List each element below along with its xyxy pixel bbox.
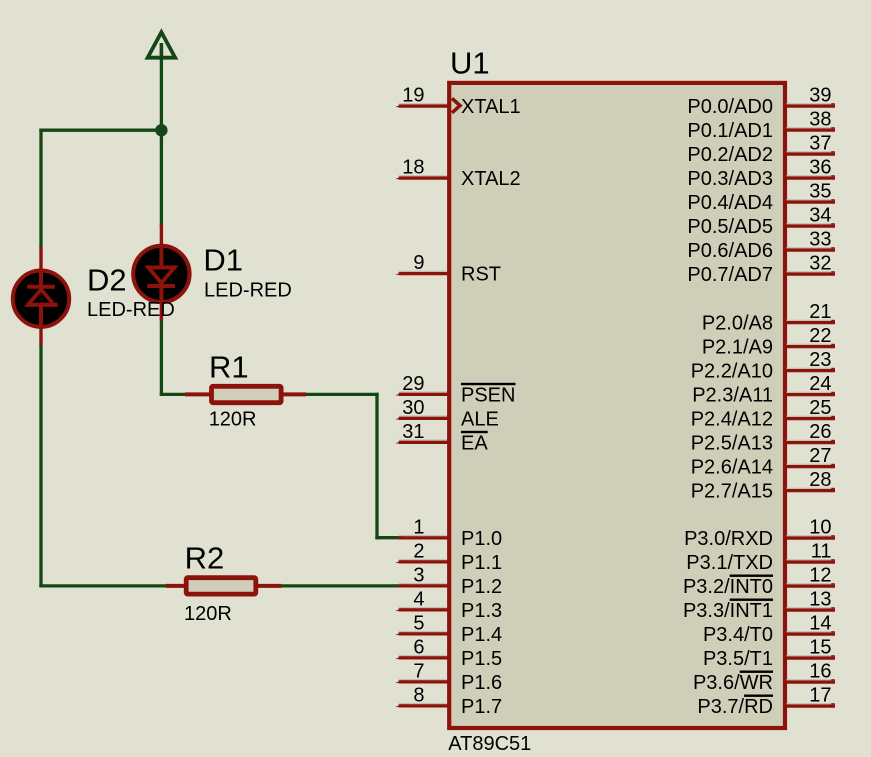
- pin 30 ALE (left): [395, 397, 499, 431]
- svg-text:R2: R2: [185, 540, 225, 575]
- resistor R1: [185, 386, 306, 402]
- svg-text:AT89C51: AT89C51: [448, 733, 531, 755]
- pin 27 P2.6/A14 (right): [691, 445, 835, 479]
- svg-text:P1.1: P1.1: [461, 552, 502, 574]
- pin 31 EA (left): [395, 421, 488, 455]
- svg-text:P3.6/WR: P3.6/WR: [693, 672, 773, 694]
- svg-text:P2.6/A14: P2.6/A14: [691, 457, 773, 479]
- svg-text:P1.2: P1.2: [461, 576, 502, 598]
- pin 1 P1.0 (left): [395, 516, 502, 550]
- svg-text:P1.6: P1.6: [461, 672, 502, 694]
- svg-text:P1.3: P1.3: [461, 600, 502, 622]
- svg-text:23: 23: [809, 349, 831, 371]
- svg-text:34: 34: [809, 205, 831, 227]
- pin 6 P1.5 (left): [395, 636, 502, 670]
- pin 9 RST (left): [395, 252, 501, 286]
- svg-text:24: 24: [809, 373, 831, 395]
- pin 12 P3.2/INT0 (right): [683, 565, 835, 599]
- pin 3 P1.2 (left): [395, 564, 502, 598]
- pin 25 P2.4/A12 (right): [691, 397, 835, 431]
- svg-text:P2.4/A12: P2.4/A12: [691, 409, 773, 431]
- wire left branch down to D2 anode: [39, 130, 42, 247]
- node junction power/D1/D2: [155, 124, 167, 136]
- svg-text:P2.1/A9: P2.1/A9: [702, 337, 773, 359]
- svg-text:16: 16: [809, 661, 831, 683]
- svg-text:2: 2: [413, 540, 424, 562]
- svg-text:18: 18: [402, 157, 424, 179]
- pin 17 P3.7/RD (right): [697, 685, 835, 719]
- svg-text:P3.2/INT0: P3.2/INT0: [683, 576, 773, 598]
- wire R1 right lead rightward: [304, 393, 377, 396]
- pin 13 P3.3/INT1 (right): [683, 589, 835, 623]
- wire to R2 left lead: [41, 584, 171, 587]
- svg-text:12: 12: [809, 565, 831, 587]
- svg-text:XTAL1: XTAL1: [461, 96, 521, 118]
- svg-text:10: 10: [809, 517, 831, 539]
- pin 2 P1.1 (left): [395, 540, 502, 574]
- svg-text:P3.1/TXD: P3.1/TXD: [686, 552, 773, 574]
- svg-text:15: 15: [809, 637, 831, 659]
- wire D2 cathode down to R2 row: [39, 344, 42, 586]
- svg-text:XTAL2: XTAL2: [461, 168, 521, 190]
- pin 8 P1.7 (left): [395, 684, 502, 718]
- pin 4 P1.3 (left): [395, 588, 502, 622]
- svg-text:22: 22: [809, 325, 831, 347]
- pin 32 P0.7/AD7 (right): [687, 253, 835, 287]
- svg-text:P0.4/AD4: P0.4/AD4: [687, 192, 773, 214]
- svg-text:P0.3/AD3: P0.3/AD3: [687, 168, 773, 190]
- wire R2 right lead to pin3 stub: [281, 584, 401, 587]
- svg-text:5: 5: [413, 612, 424, 634]
- pin 21 P2.0/A8 (right): [702, 301, 835, 335]
- svg-text:R1: R1: [209, 350, 249, 385]
- pin 16 P3.6/WR (right): [693, 661, 835, 695]
- svg-text:37: 37: [809, 133, 831, 155]
- wire down to pin1 row: [375, 394, 378, 537]
- svg-text:38: 38: [809, 109, 831, 131]
- power symbol VCC arrow: [148, 32, 176, 60]
- svg-text:6: 6: [413, 636, 424, 658]
- pin 35 P0.4/AD4 (right): [687, 181, 835, 215]
- svg-text:P0.5/AD5: P0.5/AD5: [687, 216, 773, 238]
- pin 19 XTAL1 (left): [395, 85, 520, 119]
- svg-text:P1.0: P1.0: [461, 528, 502, 550]
- svg-text:P1.7: P1.7: [461, 696, 502, 718]
- wire power arrow to D1 anode (through junction): [160, 59, 163, 226]
- wire to pin1 stub: [377, 536, 401, 539]
- pin 34 P0.5/AD5 (right): [687, 205, 835, 239]
- pin 11 P3.1/TXD (right): [686, 541, 835, 575]
- svg-text:120R: 120R: [209, 409, 257, 431]
- LED D1: [133, 225, 189, 321]
- svg-text:13: 13: [809, 589, 831, 611]
- svg-text:120R: 120R: [184, 603, 232, 625]
- svg-text:P2.5/A13: P2.5/A13: [691, 433, 773, 455]
- svg-text:P2.0/A8: P2.0/A8: [702, 313, 773, 335]
- svg-text:27: 27: [809, 445, 831, 467]
- pin 38 P0.1/AD1 (right): [687, 109, 835, 143]
- pin 37 P0.2/AD2 (right): [687, 133, 835, 167]
- svg-text:P0.6/AD6: P0.6/AD6: [687, 240, 773, 262]
- svg-text:P2.3/A11: P2.3/A11: [692, 385, 773, 407]
- svg-text:39: 39: [809, 85, 831, 107]
- svg-text:35: 35: [809, 181, 831, 203]
- svg-text:RST: RST: [461, 264, 501, 286]
- svg-text:21: 21: [809, 301, 831, 323]
- svg-text:D2: D2: [87, 262, 127, 297]
- pin 29 PSEN (left): [395, 373, 515, 407]
- resistor R2: [166, 578, 282, 594]
- svg-text:U1: U1: [450, 45, 490, 80]
- svg-text:P0.7/AD7: P0.7/AD7: [687, 264, 773, 286]
- svg-text:19: 19: [402, 85, 424, 107]
- pin 23 P2.2/A10 (right): [691, 349, 835, 383]
- svg-text:32: 32: [809, 253, 831, 275]
- svg-text:LED-RED: LED-RED: [204, 279, 292, 301]
- pin 7 P1.6 (left): [395, 660, 502, 694]
- svg-text:4: 4: [413, 588, 424, 610]
- svg-text:P1.5: P1.5: [461, 648, 502, 670]
- svg-text:P3.5/T1: P3.5/T1: [703, 648, 773, 670]
- wire D1 cathode down to R1 row: [160, 319, 163, 395]
- svg-text:P0.0/AD0: P0.0/AD0: [687, 96, 773, 118]
- wire junction to left branch, horizontal: [41, 129, 161, 132]
- svg-text:LED-RED: LED-RED: [87, 299, 175, 321]
- pin 33 P0.6/AD6 (right): [687, 229, 835, 263]
- svg-text:14: 14: [809, 613, 831, 635]
- svg-text:D1: D1: [203, 242, 243, 277]
- svg-text:28: 28: [809, 469, 831, 491]
- svg-text:P2.7/A15: P2.7/A15: [691, 481, 773, 503]
- svg-text:P3.3/INT1: P3.3/INT1: [683, 600, 773, 622]
- pin 26 P2.5/A13 (right): [691, 421, 835, 455]
- svg-text:31: 31: [402, 421, 424, 443]
- pin 24 P2.3/A11 (right): [692, 373, 835, 407]
- wire to R1 left lead: [161, 393, 186, 396]
- pin 22 P2.1/A9 (right): [702, 325, 835, 359]
- op-amp U1 body (AT89C51 IC): [449, 83, 785, 728]
- svg-text:P1.4: P1.4: [461, 624, 502, 646]
- svg-text:3: 3: [413, 564, 424, 586]
- pin 5 P1.4 (left): [395, 612, 502, 646]
- svg-text:PSEN: PSEN: [461, 384, 515, 406]
- svg-text:36: 36: [809, 157, 831, 179]
- svg-text:P0.1/AD1: P0.1/AD1: [687, 120, 773, 142]
- pin 18 XTAL2 (left): [395, 157, 520, 191]
- svg-text:P3.0/RXD: P3.0/RXD: [684, 528, 773, 550]
- svg-text:17: 17: [809, 685, 831, 707]
- svg-text:P2.2/A10: P2.2/A10: [691, 361, 773, 383]
- svg-text:P0.2/AD2: P0.2/AD2: [687, 144, 773, 166]
- pin 14 P3.4/T0 (right): [703, 613, 835, 647]
- svg-text:26: 26: [809, 421, 831, 443]
- svg-text:ALE: ALE: [461, 408, 499, 430]
- svg-text:P3.4/T0: P3.4/T0: [703, 624, 773, 646]
- svg-text:30: 30: [402, 397, 424, 419]
- svg-text:25: 25: [809, 397, 831, 419]
- svg-text:11: 11: [811, 541, 832, 563]
- pin 28 P2.7/A15 (right): [691, 469, 835, 503]
- svg-text:29: 29: [402, 373, 424, 395]
- svg-text:8: 8: [413, 684, 424, 706]
- svg-text:P3.7/RD: P3.7/RD: [697, 696, 773, 718]
- svg-text:1: 1: [413, 516, 424, 538]
- svg-text:9: 9: [413, 252, 424, 274]
- svg-text:EA: EA: [461, 432, 488, 454]
- pin 10 P3.0/RXD (right): [684, 517, 835, 551]
- svg-text:7: 7: [413, 660, 424, 682]
- LED D2: [13, 247, 69, 346]
- pin 15 P3.5/T1 (right): [703, 637, 835, 671]
- pin 39 P0.0/AD0 (right): [687, 85, 835, 119]
- svg-text:33: 33: [809, 229, 831, 251]
- pin 36 P0.3/AD3 (right): [687, 157, 835, 191]
